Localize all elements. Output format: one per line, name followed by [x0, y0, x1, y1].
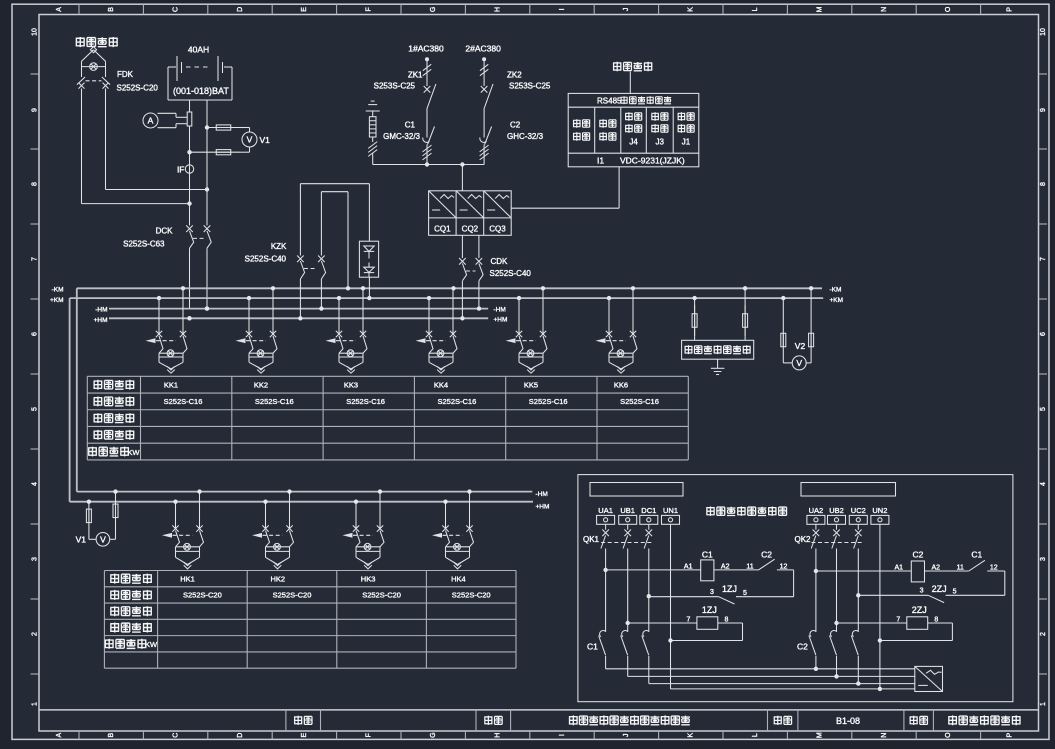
- svg-text:D: D: [237, 7, 244, 12]
- svg-text:I: I: [559, 734, 566, 736]
- svg-text:KK3: KK3: [344, 380, 358, 389]
- svg-text:RS485: RS485: [597, 96, 622, 105]
- svg-text:1ZJ: 1ZJ: [722, 584, 737, 594]
- svg-text:2#AC380: 2#AC380: [465, 44, 501, 54]
- svg-text:GMC-32/3: GMC-32/3: [383, 132, 420, 141]
- svg-text:I: I: [559, 8, 566, 10]
- svg-text:S252S-C16: S252S-C16: [255, 397, 294, 406]
- svg-text:A2: A2: [932, 565, 941, 572]
- svg-text:B: B: [108, 733, 115, 738]
- svg-text:9: 9: [31, 108, 38, 112]
- svg-text:3: 3: [710, 589, 714, 596]
- svg-text:J: J: [623, 8, 630, 12]
- svg-text:2ZJ: 2ZJ: [912, 605, 927, 615]
- svg-text:KW: KW: [127, 448, 140, 457]
- svg-text:+HM: +HM: [94, 317, 108, 324]
- svg-text:HK2: HK2: [271, 574, 286, 583]
- svg-text:1: 1: [31, 702, 38, 706]
- svg-text:-KM: -KM: [52, 287, 64, 294]
- svg-text:KK4: KK4: [434, 380, 448, 389]
- svg-text:1ZJ: 1ZJ: [702, 605, 717, 615]
- svg-text:5: 5: [953, 589, 957, 596]
- svg-text:V1: V1: [76, 535, 87, 545]
- svg-text:7: 7: [31, 257, 38, 261]
- svg-text:FDK: FDK: [117, 70, 134, 79]
- svg-text:5: 5: [31, 407, 38, 411]
- svg-text:11: 11: [957, 565, 964, 572]
- svg-text:G: G: [430, 732, 437, 737]
- svg-text:IF: IF: [177, 165, 185, 175]
- svg-text:C1: C1: [405, 121, 416, 130]
- svg-text:DCK: DCK: [156, 227, 174, 236]
- svg-text:A: A: [56, 733, 63, 738]
- svg-text:QK1: QK1: [583, 535, 600, 544]
- svg-text:S252S-C20: S252S-C20: [183, 591, 222, 600]
- svg-text:S252S-C63: S252S-C63: [123, 240, 165, 249]
- svg-text:J3: J3: [656, 138, 665, 147]
- svg-text:B: B: [108, 7, 115, 12]
- svg-text:S252S-C40: S252S-C40: [490, 269, 532, 278]
- svg-text:ZK1: ZK1: [408, 71, 423, 80]
- svg-text:5: 5: [743, 590, 747, 597]
- svg-text:8: 8: [934, 617, 938, 624]
- svg-text:VDC-9231(JZJK): VDC-9231(JZJK): [620, 155, 685, 165]
- svg-text:E: E: [301, 7, 308, 12]
- svg-text:40AH: 40AH: [188, 45, 209, 55]
- svg-text:S252S-C20: S252S-C20: [273, 591, 312, 600]
- svg-text:F: F: [366, 733, 373, 737]
- svg-text:(001-018)BAT: (001-018)BAT: [173, 86, 229, 96]
- svg-text:M: M: [816, 6, 823, 12]
- svg-text:8: 8: [724, 617, 728, 624]
- svg-text:UA2: UA2: [809, 506, 824, 515]
- svg-text:C1: C1: [702, 549, 713, 559]
- svg-text:3: 3: [920, 588, 924, 595]
- svg-text:2: 2: [1040, 632, 1047, 636]
- svg-text:G: G: [430, 7, 437, 12]
- svg-text:H: H: [494, 733, 501, 738]
- svg-text:J: J: [623, 733, 630, 737]
- svg-text:HK1: HK1: [180, 574, 195, 583]
- svg-text:UC2: UC2: [851, 506, 866, 515]
- svg-text:V2: V2: [795, 341, 806, 351]
- svg-text:6: 6: [31, 332, 38, 336]
- svg-text:A: A: [148, 116, 154, 126]
- svg-text:+HM: +HM: [536, 504, 550, 511]
- svg-text:A2: A2: [721, 563, 730, 570]
- svg-text:10: 10: [31, 28, 38, 36]
- svg-text:S252S-C20: S252S-C20: [452, 591, 491, 600]
- svg-text:CQ1: CQ1: [434, 225, 451, 234]
- svg-text:7: 7: [896, 617, 900, 624]
- svg-text:-HM: -HM: [536, 491, 548, 498]
- svg-text:4: 4: [31, 482, 38, 486]
- svg-text:9: 9: [1040, 108, 1047, 112]
- svg-text:A: A: [56, 7, 63, 12]
- svg-text:C2: C2: [761, 549, 772, 559]
- svg-text:KZK: KZK: [271, 242, 287, 251]
- svg-text:V: V: [796, 358, 802, 368]
- svg-text:3: 3: [1040, 557, 1047, 561]
- svg-text:S252S-C16: S252S-C16: [620, 397, 659, 406]
- svg-text:M: M: [816, 732, 823, 738]
- svg-text:UN2: UN2: [872, 506, 887, 515]
- svg-text:C: C: [172, 7, 179, 12]
- svg-text:S253S-C25: S253S-C25: [374, 82, 416, 91]
- svg-text:8: 8: [1040, 182, 1047, 186]
- svg-text:2ZJ: 2ZJ: [932, 584, 947, 594]
- svg-text:L: L: [752, 733, 759, 737]
- svg-text:S252S-C20: S252S-C20: [362, 591, 401, 600]
- svg-text:+KM: +KM: [830, 297, 844, 304]
- svg-text:6: 6: [1040, 332, 1047, 336]
- svg-text:P: P: [1006, 7, 1013, 12]
- svg-text:1#AC380: 1#AC380: [408, 44, 444, 54]
- svg-text:C: C: [172, 733, 179, 738]
- svg-text:CQ3: CQ3: [489, 225, 506, 234]
- svg-text:KK5: KK5: [524, 380, 538, 389]
- svg-text:10: 10: [1040, 28, 1047, 36]
- svg-text:P: P: [1006, 733, 1013, 738]
- svg-text:S252S-C16: S252S-C16: [438, 397, 477, 406]
- svg-text:A1: A1: [895, 565, 904, 572]
- svg-text:KK2: KK2: [254, 380, 268, 389]
- svg-text:C2: C2: [510, 121, 521, 130]
- svg-text:I1: I1: [597, 155, 604, 165]
- svg-text:A1: A1: [684, 563, 693, 570]
- svg-text:KK1: KK1: [164, 380, 178, 389]
- svg-text:V: V: [100, 534, 106, 544]
- svg-text:O: O: [945, 6, 952, 12]
- svg-text:GHC-32/3: GHC-32/3: [507, 132, 544, 141]
- svg-text:D: D: [237, 733, 244, 738]
- svg-text:J1: J1: [682, 138, 691, 147]
- svg-text:J4: J4: [629, 138, 638, 147]
- svg-text:N: N: [881, 7, 888, 12]
- svg-text:KK6: KK6: [614, 380, 628, 389]
- svg-text:QK2: QK2: [795, 535, 812, 544]
- svg-text:7: 7: [686, 617, 690, 624]
- svg-text:V1: V1: [260, 135, 271, 145]
- svg-text:F: F: [366, 7, 373, 11]
- svg-text:UB1: UB1: [620, 506, 635, 515]
- svg-text:UA1: UA1: [598, 506, 613, 515]
- svg-text:ZK2: ZK2: [507, 71, 522, 80]
- svg-text:K: K: [688, 7, 695, 12]
- svg-text:S252S-C40: S252S-C40: [245, 255, 287, 264]
- svg-text:KW: KW: [145, 640, 158, 649]
- svg-text:5: 5: [1040, 407, 1047, 411]
- svg-text:3: 3: [31, 557, 38, 561]
- svg-text:-KM: -KM: [830, 287, 842, 294]
- svg-text:2: 2: [31, 632, 38, 636]
- svg-text:H: H: [494, 7, 501, 12]
- svg-text:HK3: HK3: [361, 574, 376, 583]
- svg-text:E: E: [301, 733, 308, 738]
- svg-text:DC1: DC1: [641, 506, 656, 515]
- svg-text:C2: C2: [797, 642, 808, 652]
- svg-text:12: 12: [990, 565, 998, 572]
- svg-text:8: 8: [31, 182, 38, 186]
- svg-text:CDK: CDK: [491, 257, 509, 266]
- svg-text:11: 11: [746, 563, 753, 570]
- svg-text:S252S-C20: S252S-C20: [117, 84, 159, 93]
- svg-text:+KM: +KM: [50, 297, 64, 304]
- svg-text:CQ2: CQ2: [462, 225, 479, 234]
- svg-text:12: 12: [780, 563, 788, 570]
- svg-text:C1: C1: [971, 549, 982, 559]
- svg-text:C2: C2: [912, 549, 923, 559]
- svg-text:K: K: [688, 733, 695, 738]
- svg-text:S252S-C16: S252S-C16: [529, 397, 568, 406]
- svg-text:S253S-C25: S253S-C25: [509, 82, 551, 91]
- svg-text:V: V: [247, 135, 253, 145]
- svg-text:-HM: -HM: [95, 307, 107, 314]
- svg-text:C1: C1: [587, 642, 598, 652]
- svg-text:+HM: +HM: [494, 317, 508, 324]
- svg-text:UB2: UB2: [829, 506, 844, 515]
- svg-text:UN1: UN1: [663, 506, 678, 515]
- svg-text:O: O: [945, 732, 952, 738]
- svg-text:7: 7: [1040, 257, 1047, 261]
- svg-text:N: N: [881, 733, 888, 738]
- svg-text:HK4: HK4: [451, 574, 466, 583]
- svg-text:S252S-C16: S252S-C16: [346, 397, 385, 406]
- svg-text:-HM: -HM: [494, 307, 506, 314]
- svg-text:4: 4: [1040, 482, 1047, 486]
- svg-text:B1-08: B1-08: [836, 716, 860, 726]
- svg-text:S252S-C16: S252S-C16: [164, 397, 203, 406]
- svg-text:1: 1: [1040, 702, 1047, 706]
- svg-text:L: L: [752, 7, 759, 11]
